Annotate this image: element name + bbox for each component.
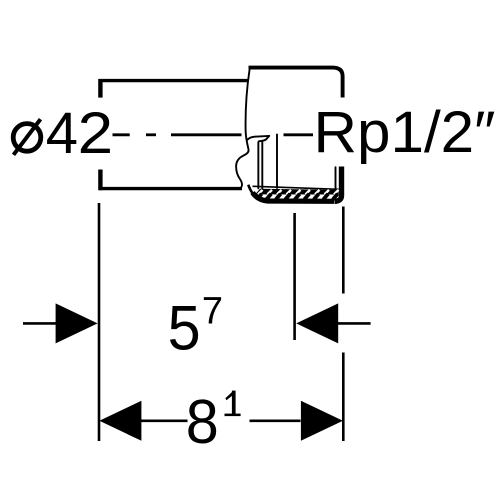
svg-text:4: 4 xyxy=(46,101,78,166)
svg-text:5: 5 xyxy=(168,294,201,364)
svg-text:2: 2 xyxy=(78,101,114,166)
svg-text:Rp1/2″: Rp1/2″ xyxy=(314,100,496,165)
svg-text:8: 8 xyxy=(186,388,219,457)
svg-text:7: 7 xyxy=(202,290,223,332)
